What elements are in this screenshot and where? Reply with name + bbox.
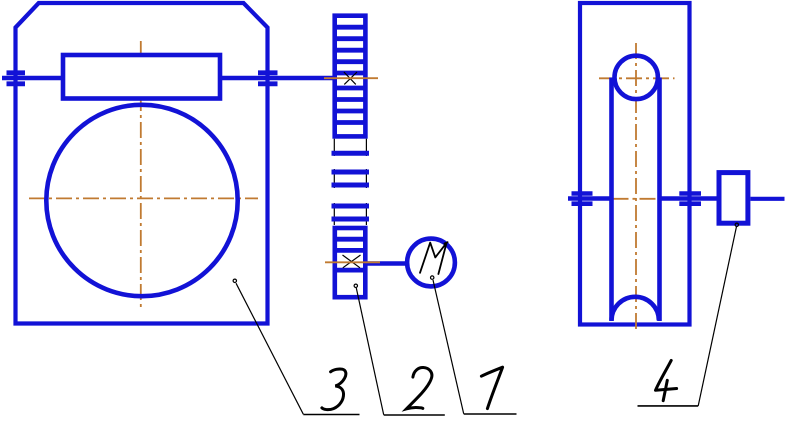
label digit 3 — [322, 369, 346, 410]
belt drive 2, middle links — [332, 139, 370, 225]
drum shaft middle segment — [660, 196, 717, 201]
motor letter M — [420, 242, 448, 274]
coupling 4 (small rectangle on shaft) — [719, 173, 748, 224]
centerline horizontal, worm axis — [65, 77, 218, 79]
centerline horizontal, drum axis — [613, 198, 657, 200]
worm wheel (large circle) — [46, 105, 237, 296]
shaft cross mark at worm shaft — [344, 72, 357, 84]
leader dot on housing — [233, 279, 236, 282]
belt left run — [609, 78, 614, 322]
bearing at right wall of housing — [258, 73, 278, 84]
centerline horizontal, upper pulley — [599, 77, 675, 79]
bearing at left wall of pulley housing — [572, 194, 593, 204]
worm (rectangle on input shaft) — [63, 55, 220, 99]
belt right run — [657, 78, 662, 322]
centerline horizontal, worm-wheel axis — [29, 197, 258, 199]
centerline through upper cross — [324, 77, 378, 79]
pulley housing (right view) — [580, 3, 690, 325]
leader dot on coupling — [735, 223, 738, 226]
label digit 4 — [656, 360, 677, 400]
leader line for 1 — [433, 280, 464, 414]
label underline 2 — [384, 414, 445, 416]
belt drive 2, upper run (top section) — [333, 16, 368, 137]
leader dot on motor — [431, 276, 434, 279]
belt bottom arc — [612, 297, 659, 321]
bearing at left wall of housing — [7, 73, 26, 84]
input shaft right segment — [220, 76, 336, 81]
input shaft left segment — [2, 76, 63, 81]
belt drive 2, lower run (bottom section, motor pulley) — [333, 228, 368, 297]
centerline through lower cross — [325, 261, 380, 263]
drum shaft right segment — [751, 197, 785, 201]
label underline 1 — [464, 413, 517, 415]
gearbox housing 3 — [16, 3, 268, 324]
motor M1 circle — [407, 239, 455, 287]
drum shaft left segment — [568, 196, 612, 201]
centerline vertical, pulley axis — [635, 43, 637, 330]
bearing at right wall of pulley housing — [679, 194, 701, 204]
leader line for 4 — [698, 227, 736, 406]
leader line for 3 — [236, 283, 303, 414]
label underline 4 — [638, 405, 699, 407]
label digit 2 — [407, 367, 432, 408]
leader dot on belt drive — [354, 284, 357, 287]
upper pulley circle — [615, 56, 658, 99]
centerline vertical, worm-wheel axis — [140, 41, 142, 307]
leader line for 2 — [356, 288, 383, 415]
label underline 3 — [303, 414, 359, 416]
motor shaft stub — [365, 261, 406, 266]
shaft cross mark at motor shaft — [343, 255, 361, 268]
label digit 1 — [481, 367, 502, 408]
